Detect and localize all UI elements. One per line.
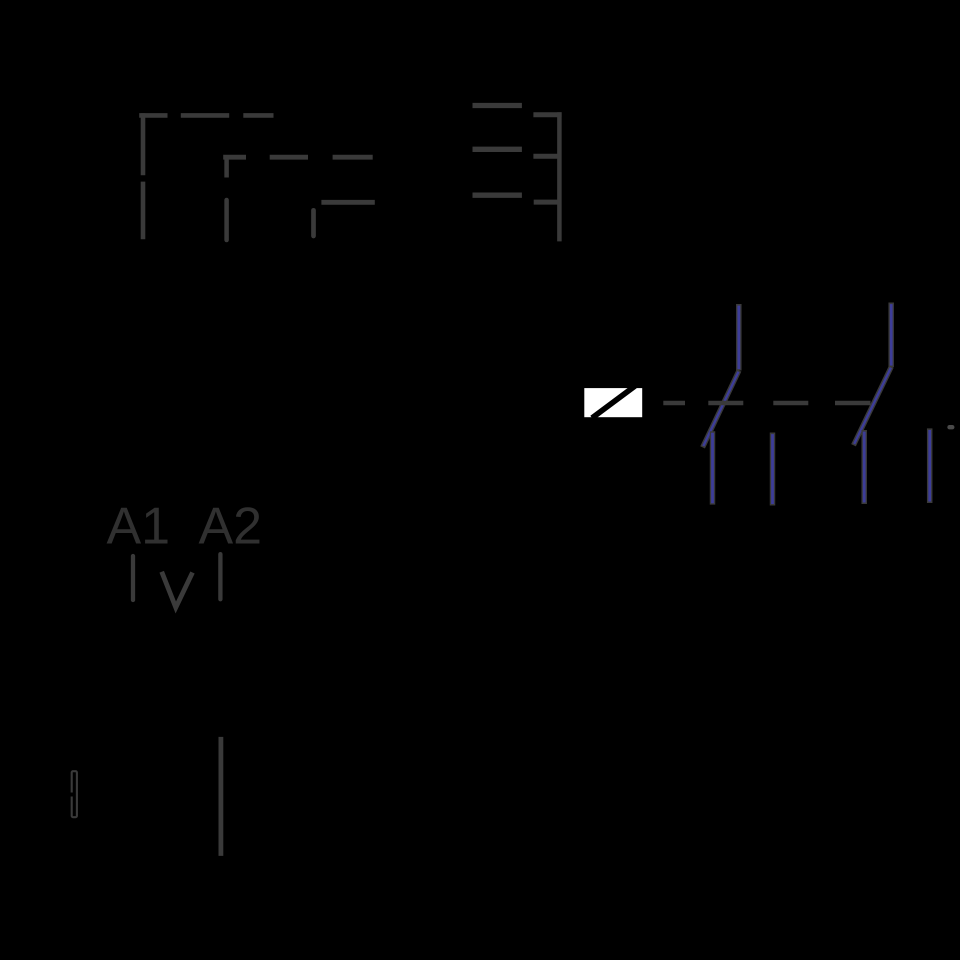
pole 1 top terminal wire [736,304,742,371]
pole 1 bottom terminal wire [710,431,716,504]
terminal bracket stub 3 [534,200,558,205]
stray dash bottom right [950,425,953,429]
coil lead A1 [131,556,135,600]
pole 3 top terminal wire [888,303,894,368]
mechanical linkage row 1 vertical dashed wire [141,113,146,239]
svg-text:A1: A1 [107,498,171,556]
actuator box with diagonal [584,386,642,418]
pole 3 bottom terminal wire [861,430,867,504]
dashed actuator linkage wire [663,401,870,406]
mechanical linkage row 3 horizontal wire [321,200,374,205]
terminal bracket stub 2 [533,154,558,159]
terminal bracket stub 1 [533,112,561,117]
svg-text:A2: A2 [199,498,263,556]
contact bar 3 [473,193,522,198]
terminal bracket vertical wire [557,112,562,241]
pole 1 moving contact [703,371,739,448]
resistor outline bottom left [70,771,77,817]
pole 3 moving contact [854,367,892,446]
coil lead A2 [218,554,222,599]
chevron V between coil leads [162,572,193,608]
contact bar 2 [473,147,522,152]
mechanical linkage row 1 horizontal dashed wire [139,113,273,118]
pole 2 bottom terminal wire [770,433,776,506]
mechanical linkage row 3 vertical wire [311,210,316,236]
wire below A2 [218,737,223,856]
contact bar 1 [473,103,522,108]
mechanical linkage row 2 horizontal dashed wire [223,155,373,160]
mechanical linkage row 2 vertical dashed wire [224,155,229,240]
pole 4 bottom terminal wire [927,428,933,503]
